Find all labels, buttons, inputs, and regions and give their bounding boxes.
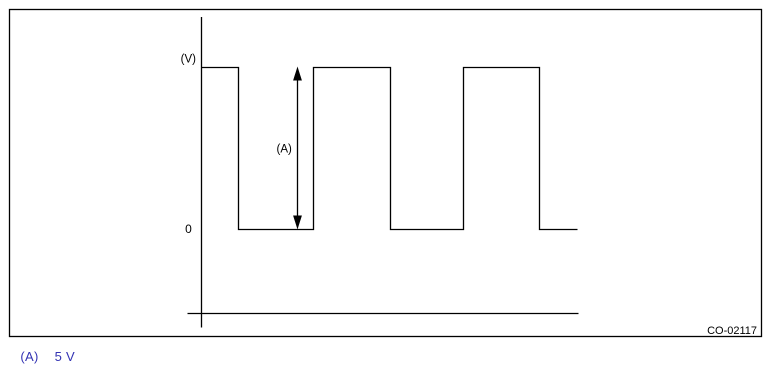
square wave waveform <box>202 68 578 230</box>
time axis (horizontal) <box>188 313 579 315</box>
amplitude arrow shaft <box>297 78 299 218</box>
svg-text:(A): (A) <box>277 144 293 156</box>
svg-text:(A): (A) <box>20 349 38 364</box>
svg-text:5 V: 5 V <box>55 349 75 364</box>
voltage axis (vertical) <box>201 17 203 328</box>
svg-text:CO-02117: CO-02117 <box>707 325 757 337</box>
svg-text:(V): (V) <box>181 54 197 66</box>
svg-text:0: 0 <box>185 222 192 236</box>
amplitude arrow head top <box>293 67 302 81</box>
amplitude arrow head bottom <box>293 216 302 230</box>
